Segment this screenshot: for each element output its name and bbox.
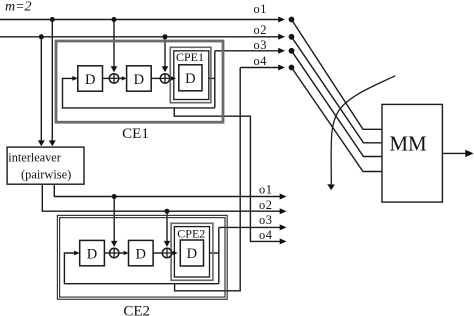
svg-text:o2: o2 — [259, 198, 272, 212]
svg-text:interleaver: interleaver — [8, 151, 61, 165]
svg-text:CPE2: CPE2 — [177, 226, 205, 240]
svg-text:o4: o4 — [254, 54, 267, 68]
svg-text:o2: o2 — [254, 23, 267, 37]
svg-text:o3: o3 — [254, 38, 267, 52]
svg-text:D: D — [134, 72, 144, 88]
svg-text:D: D — [136, 246, 146, 262]
svg-text:(pairwise): (pairwise) — [21, 167, 71, 181]
svg-text:o3: o3 — [259, 213, 272, 227]
svg-text:CE2: CE2 — [123, 304, 150, 316]
svg-text:o1: o1 — [254, 2, 267, 16]
svg-text:MM: MM — [389, 131, 427, 155]
svg-text:o1: o1 — [259, 183, 272, 197]
svg-text:D: D — [85, 72, 95, 88]
svg-text:D: D — [87, 246, 97, 262]
svg-text:D: D — [187, 246, 197, 262]
svg-text:D: D — [185, 71, 195, 87]
svg-text:CE1: CE1 — [122, 126, 149, 142]
svg-text:CPE1: CPE1 — [176, 50, 204, 64]
svg-text:m=2: m=2 — [5, 0, 32, 15]
svg-text:o4: o4 — [259, 228, 272, 242]
